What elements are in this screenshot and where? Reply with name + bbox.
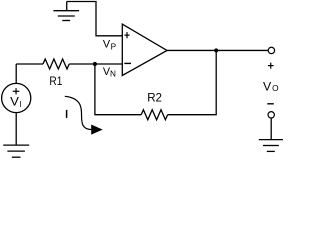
svg-text:O: O <box>272 83 279 93</box>
resistor R2 <box>141 110 167 120</box>
ground GND1 (non-inverting input ground) <box>53 2 79 21</box>
output plus sign <box>268 63 274 69</box>
op-amp minus input sign <box>124 62 131 64</box>
output terminal (upper) <box>268 47 274 53</box>
svg-text:P: P <box>111 42 117 51</box>
output terminal (lower) <box>268 112 274 118</box>
svg-text:R2: R2 <box>147 92 162 105</box>
wire source bottom to GND2 <box>15 113 17 146</box>
resistor R1 <box>43 59 69 69</box>
label I <box>66 110 68 118</box>
wire R2 to output node <box>168 50 217 114</box>
svg-text:I: I <box>19 100 21 109</box>
wire V_I to R1 to node A (inverting input line) <box>16 63 43 65</box>
current arrow I <box>65 96 92 129</box>
wire R1 to op-amp inverting input <box>69 63 122 65</box>
source plus sign <box>13 88 19 94</box>
svg-text:V: V <box>10 95 19 108</box>
wire from GND1 to op-amp non-inverting input <box>67 2 123 36</box>
wire lower terminal to GND3 <box>270 118 272 140</box>
node A junction dot <box>93 62 97 66</box>
op-amp plus input sign <box>124 32 129 38</box>
svg-text:R1: R1 <box>49 75 62 88</box>
wire source top to R1 line <box>15 64 17 83</box>
label V_O <box>263 79 279 93</box>
source label V_I <box>10 95 21 109</box>
op-amp U1 <box>122 24 167 75</box>
wire node A down to R2 <box>95 64 141 115</box>
wire op-amp output to terminal <box>167 49 268 51</box>
node label V_P <box>103 38 117 51</box>
output minus sign <box>267 103 274 105</box>
svg-text:N: N <box>110 70 116 79</box>
node B junction dot (output node) <box>214 48 218 52</box>
ground GND2 (source ground) <box>3 145 29 157</box>
source V_I <box>2 83 31 112</box>
ground GND3 (output ground) <box>259 140 283 152</box>
svg-text:V: V <box>263 79 272 93</box>
node label V_N <box>103 66 116 79</box>
